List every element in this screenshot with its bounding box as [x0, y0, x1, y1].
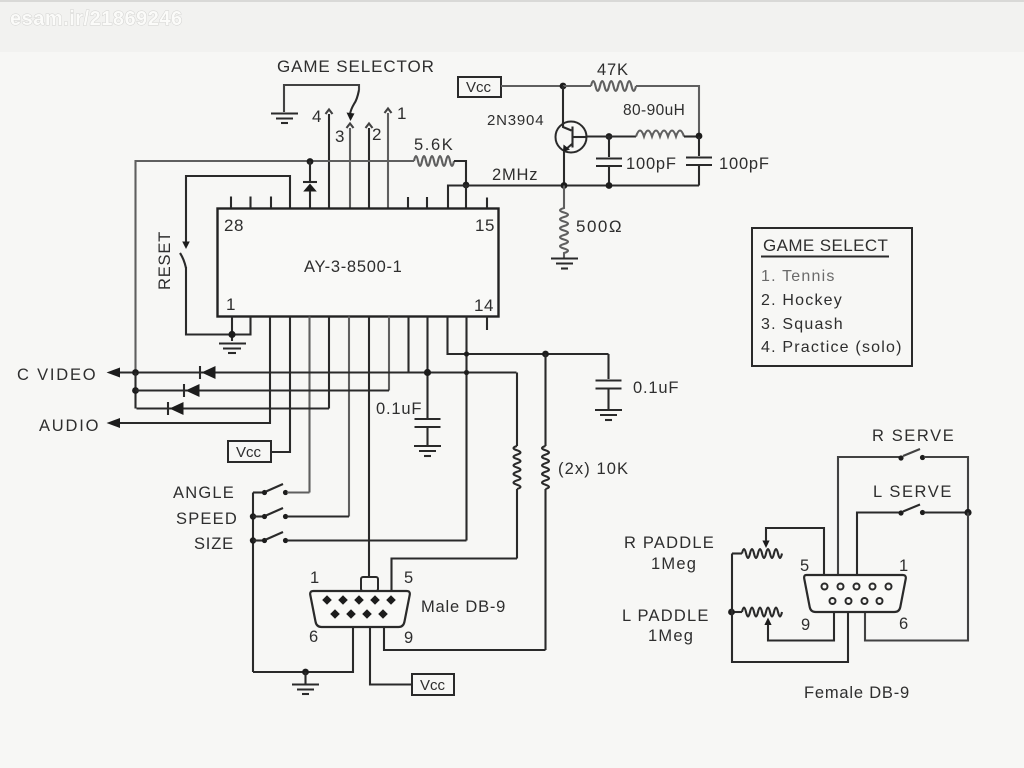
- node video bus junction: [132, 369, 139, 376]
- node contact pin3: [347, 124, 354, 129]
- svg-text:6: 6: [309, 628, 319, 646]
- svg-text:SPEED: SPEED: [176, 510, 238, 528]
- label pin 1: [226, 295, 236, 314]
- svg-text:1: 1: [226, 295, 236, 314]
- svg-text:AY-3-8500-1: AY-3-8500-1: [304, 258, 403, 276]
- svg-text:2. Hockey: 2. Hockey: [761, 292, 843, 309]
- wire game pin3: [349, 128, 351, 208]
- svg-text:esam.ir/21869246: esam.ir/21869246: [10, 8, 183, 30]
- label male pin 6: [309, 628, 319, 646]
- label C VIDEO: [17, 366, 97, 384]
- label 2MHz: [492, 166, 538, 184]
- node speed common junction: [250, 513, 256, 519]
- svg-text:5.6K: 5.6K: [414, 136, 454, 154]
- female pins row2: [830, 598, 883, 604]
- label GAME SELECT title: [761, 236, 889, 257]
- potentiometer R paddle: [732, 528, 824, 575]
- wire pin to Vcc left: [271, 317, 290, 453]
- switch reset: [180, 242, 190, 269]
- diode D3: [184, 384, 200, 397]
- wire pin to cap 0.1uF left: [426, 317, 428, 419]
- label pin 14: [474, 296, 494, 315]
- label 2N3904: [487, 112, 544, 129]
- svg-text:ANGLE: ANGLE: [173, 484, 235, 502]
- wire pin to angle row: [308, 317, 310, 493]
- svg-text:Vcc: Vcc: [420, 677, 446, 694]
- node paddle common junction: [728, 609, 735, 616]
- node emitter junction: [561, 182, 568, 189]
- resistor 500 ohm: [560, 186, 568, 259]
- svg-text:6: 6: [899, 615, 909, 633]
- capacitor 100pF right: [686, 137, 712, 186]
- wire row2: [136, 389, 390, 391]
- capacitor 0.1uF left: [415, 419, 441, 445]
- node base junction: [606, 133, 613, 140]
- svg-text:1: 1: [397, 104, 407, 123]
- label 4. Practice (solo): [761, 339, 903, 356]
- svg-text:1: 1: [310, 569, 320, 587]
- wire audio arrow: [107, 418, 121, 428]
- wire pin to audio row: [118, 317, 270, 424]
- wire pin to video row: [407, 317, 409, 373]
- label Male DB-9: [421, 598, 506, 616]
- wire pin to speed row: [348, 317, 350, 517]
- label 4: [312, 107, 322, 126]
- wire 2MHz row: [448, 186, 699, 209]
- wire game pin4: [328, 114, 330, 208]
- wire db9 shell to ground: [306, 627, 354, 672]
- node inductor/47K junction: [696, 133, 703, 140]
- node serve junction: [964, 509, 971, 516]
- label 3. Squash: [761, 316, 844, 333]
- ground male db9: [292, 672, 319, 694]
- svg-text:14: 14: [474, 296, 494, 315]
- label L SERVE: [873, 483, 953, 501]
- label 1Meg R: [651, 555, 697, 573]
- label female pin 9: [801, 616, 811, 634]
- svg-text:3: 3: [335, 127, 345, 146]
- label RESET (rotated): [156, 231, 174, 290]
- pin stub top e: [426, 197, 428, 208]
- label SPEED: [176, 510, 238, 528]
- label female pin 5: [800, 557, 810, 575]
- label 0.1uF right: [633, 379, 679, 397]
- label 5.6K: [414, 136, 454, 154]
- wire pin to male db9: [368, 317, 370, 578]
- svg-text:5: 5: [800, 557, 810, 575]
- label (2x) 10K: [558, 460, 629, 478]
- diode D4: [168, 402, 184, 415]
- svg-text:L PADDLE: L PADDLE: [622, 607, 710, 625]
- svg-text:80-90uH: 80-90uH: [623, 102, 685, 119]
- label 100pF left: [626, 155, 677, 173]
- diode D1: [303, 161, 317, 208]
- wire switch common bus: [252, 493, 254, 673]
- wire pin to size row: [465, 317, 467, 541]
- Vcc box bottom: [412, 674, 454, 695]
- diode D2: [200, 366, 216, 379]
- game select legend box: [752, 228, 912, 366]
- label 1: [397, 104, 407, 123]
- capacitor 100pF left: [596, 137, 622, 186]
- svg-text:R PADDLE: R PADDLE: [624, 534, 715, 552]
- svg-text:2: 2: [372, 125, 382, 144]
- switch R SERVE: [838, 449, 968, 575]
- label ANGLE: [173, 484, 235, 502]
- svg-text:1Meg: 1Meg: [651, 555, 697, 573]
- label male pin 9: [404, 629, 414, 647]
- svg-text:28: 28: [224, 216, 244, 235]
- svg-text:15: 15: [475, 216, 495, 235]
- connector male DB-9: [310, 577, 410, 627]
- node diode junction: [307, 158, 314, 165]
- svg-text:SIZE: SIZE: [194, 535, 234, 553]
- svg-text:Male DB-9: Male DB-9: [421, 598, 506, 616]
- ground game-selector: [271, 114, 298, 124]
- node 10K right junction: [542, 351, 549, 358]
- node contact pin4: [326, 110, 333, 115]
- svg-text:4: 4: [312, 107, 322, 126]
- wire reset bottom loop: [186, 267, 232, 335]
- label pin 15: [475, 216, 495, 235]
- ground cap left: [414, 446, 441, 456]
- wire game pin2: [368, 128, 370, 208]
- resistor 47K: [563, 81, 699, 135]
- wire video row: [107, 368, 517, 378]
- label 2. Hockey: [761, 292, 843, 309]
- wire base node: [587, 135, 636, 137]
- male pins row1: [322, 595, 396, 605]
- node contact pin2: [366, 124, 373, 129]
- svg-text:2MHz: 2MHz: [492, 166, 538, 184]
- inductor 80-90uH: [636, 131, 699, 137]
- switch SIZE: [253, 532, 467, 543]
- pin stub bottom 14: [486, 317, 488, 331]
- label female pin 6: [899, 615, 909, 633]
- Vcc box top: [458, 77, 501, 97]
- resistor 10K left: [514, 373, 521, 559]
- svg-text:47K: 47K: [597, 61, 629, 79]
- wire reset top loop: [186, 176, 290, 243]
- connector female DB-9: [804, 575, 906, 612]
- svg-text:0.1uF: 0.1uF: [376, 400, 422, 418]
- potentiometer L paddle: [732, 608, 835, 641]
- wire switch bus to ground: [253, 671, 306, 673]
- svg-text:0.1uF: 0.1uF: [633, 379, 679, 397]
- svg-text:Vcc: Vcc: [466, 79, 492, 96]
- svg-text:GAME SELECT: GAME SELECT: [763, 236, 888, 255]
- node size/cap-row crossing dots: [464, 351, 469, 375]
- pin stub top 28: [230, 197, 232, 209]
- wire paddle common: [732, 554, 848, 663]
- label 47K: [597, 61, 629, 79]
- node row2 bus junction: [132, 387, 139, 394]
- label 80-90uH: [623, 102, 685, 119]
- pin stub top b: [249, 197, 251, 209]
- switch SPEED: [253, 508, 349, 519]
- svg-text:100pF: 100pF: [719, 155, 770, 173]
- label SIZE: [194, 535, 234, 553]
- svg-text:(2x) 10K: (2x) 10K: [558, 460, 629, 478]
- op-amp U1 AY-3-8500-1: [218, 209, 499, 317]
- node Vcc junction: [560, 83, 567, 90]
- Vcc box left: [228, 441, 271, 462]
- wire top bus row: [136, 161, 415, 373]
- wire Vcc to base node: [501, 85, 563, 87]
- node db9 ground junction: [302, 669, 309, 676]
- svg-text:R SERVE: R SERVE: [872, 427, 955, 445]
- wire serve return: [865, 513, 968, 641]
- pin stub top 15: [486, 198, 488, 209]
- svg-text:1Meg: 1Meg: [648, 627, 694, 645]
- transistor Q1 2N3904: [556, 86, 588, 186]
- svg-text:9: 9: [801, 616, 811, 634]
- label male pin 5: [404, 569, 414, 587]
- label male pin 1: [310, 569, 320, 587]
- label GAME SELECTOR: [277, 57, 435, 76]
- label 100pF right: [719, 155, 770, 173]
- pin stub top c: [270, 197, 272, 209]
- label R PADDLE: [624, 534, 715, 552]
- wire pin1 to ground: [232, 317, 251, 342]
- switch game-selector arm: [347, 90, 360, 121]
- node video cap junction: [424, 369, 431, 376]
- switch L SERVE: [857, 505, 968, 576]
- node contact pin1: [385, 109, 392, 114]
- label R SERVE: [872, 427, 955, 445]
- node size common junction: [250, 537, 256, 543]
- label 1. Tennis: [761, 268, 836, 285]
- svg-text:1. Tennis: 1. Tennis: [761, 268, 836, 285]
- label 1Meg L: [648, 627, 694, 645]
- node 5.6K/2MHz junction: [463, 182, 470, 189]
- wire row3: [137, 407, 330, 409]
- label AUDIO: [39, 417, 100, 435]
- label 500 ohm: [576, 217, 623, 236]
- svg-text:AUDIO: AUDIO: [39, 417, 100, 435]
- wire bus to row2: [134, 373, 136, 409]
- ground 500 ohm: [551, 259, 578, 269]
- svg-text:RESET: RESET: [156, 231, 174, 290]
- wire pin to row3: [328, 317, 330, 409]
- label 2: [372, 125, 382, 144]
- label 0.1uF left: [376, 400, 422, 418]
- svg-text:100pF: 100pF: [626, 155, 677, 173]
- svg-text:Female DB-9: Female DB-9: [804, 684, 910, 702]
- pin stub top d: [407, 197, 409, 208]
- svg-text:3. Squash: 3. Squash: [761, 316, 844, 333]
- label 3: [335, 127, 345, 146]
- wire game pin1: [387, 113, 389, 208]
- svg-text:4. Practice (solo): 4. Practice (solo): [761, 339, 903, 356]
- wire pin to cap row right: [448, 317, 609, 355]
- node pin1 ground junction: [228, 331, 235, 338]
- svg-text:9: 9: [404, 629, 414, 647]
- svg-text:Vcc: Vcc: [236, 444, 262, 461]
- wire game-selector bracket: [284, 85, 359, 112]
- svg-text:2N3904: 2N3904: [487, 112, 544, 129]
- label Female DB-9: [804, 684, 910, 702]
- switch ANGLE: [253, 484, 310, 495]
- female pins row1: [822, 584, 892, 590]
- capacitor 0.1uF right: [596, 354, 622, 409]
- label AY-3-8500-1: [304, 258, 403, 276]
- resistor 5.6K: [414, 156, 466, 184]
- svg-text:GAME SELECTOR: GAME SELECTOR: [277, 57, 435, 76]
- wire db9 to Vcc bottom: [370, 627, 412, 685]
- resistor 10K right: [542, 354, 549, 650]
- svg-text:L SERVE: L SERVE: [873, 483, 953, 501]
- svg-text:5: 5: [404, 569, 414, 587]
- male pins row2: [330, 609, 388, 619]
- wire 10K right to db9 pin9: [384, 627, 546, 650]
- label L PADDLE: [622, 607, 710, 625]
- svg-text:500Ω: 500Ω: [576, 217, 623, 236]
- label female pin 1: [899, 557, 909, 575]
- label pin 28: [224, 216, 244, 235]
- svg-text:1: 1: [899, 557, 909, 575]
- ground pin1: [219, 344, 246, 354]
- wire pin to row2: [388, 317, 390, 391]
- wire 10K left to db9 pin5: [392, 559, 518, 592]
- node cap row junction: [606, 182, 613, 189]
- ground cap right: [595, 410, 622, 420]
- svg-text:C VIDEO: C VIDEO: [17, 366, 97, 384]
